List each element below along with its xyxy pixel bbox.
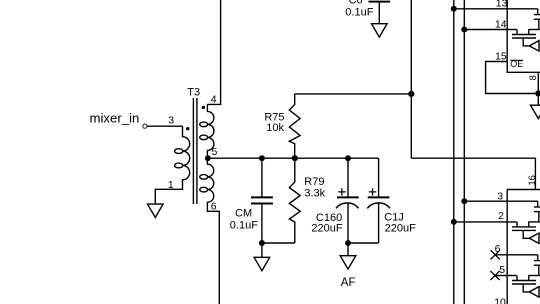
ground at pin 8 (clipped) [537, 94, 539, 106]
pin 3 wire [464, 200, 537, 202]
pin 5 wire with no-connect X [495, 275, 517, 277]
transformer T3 core [193, 98, 197, 204]
pin number 5 (IC) [499, 264, 505, 276]
IC U1 top body edges [507, 0, 540, 72]
label C160 [311, 212, 342, 235]
transformer T3 secondary upper winding [200, 104, 214, 158]
junction pin2 [451, 219, 457, 225]
analog switch (pins 3/2) [512, 201, 540, 243]
svg-text:5: 5 [212, 146, 218, 158]
resistor R79 [289, 158, 300, 243]
transformer T3 primary winding [155, 126, 189, 204]
svg-text:5: 5 [499, 264, 505, 276]
svg-text:AF: AF [341, 277, 356, 289]
junction pin8/pin15 net [535, 90, 540, 96]
ground below CM [261, 243, 263, 257]
vertical bus line 2 [463, 0, 465, 304]
junction C160 top [345, 155, 351, 161]
svg-text:6: 6 [211, 200, 217, 212]
wire bottom bus right [348, 242, 379, 244]
label C6 [345, 0, 373, 19]
junction pin13 [451, 6, 457, 12]
transformer T3 secondary lower winding [200, 158, 220, 304]
svg-text:4: 4 [211, 94, 217, 106]
capacitor C160 [347, 158, 349, 197]
pin 8 stub [537, 72, 539, 93]
wire R75 top [295, 93, 412, 95]
wire mixer_in to T3 pin 3 [147, 125, 182, 127]
vertical bus line 1 [453, 0, 455, 304]
wire mid bus (T3 pin 5 net) [207, 157, 378, 159]
label R75 [264, 112, 284, 134]
pin number 15 [495, 51, 507, 63]
pin number 6 (IC) [495, 243, 501, 255]
pin 14 wire [464, 29, 516, 31]
junction T3 pin 5 [205, 155, 211, 161]
svg-text:10: 10 [494, 297, 506, 304]
pin number 4 (T3) [211, 94, 217, 106]
svg-text:2: 2 [498, 210, 504, 222]
junction CM bottom [259, 240, 265, 246]
pin label OE (inside IC) [510, 59, 523, 69]
svg-text:16: 16 [527, 175, 538, 186]
pin number 10 (clipped) [494, 297, 506, 304]
polarity dot primary [186, 127, 189, 130]
ground below C6 [372, 24, 388, 37]
junction pin3 [461, 198, 467, 204]
svg-text:6: 6 [495, 243, 501, 255]
wire bottom bus left (CM/R79 gnd) [262, 242, 295, 244]
label R79 [304, 176, 325, 200]
pin number 14 [495, 18, 507, 30]
svg-text:1: 1 [168, 179, 174, 191]
plus sign C1J [369, 188, 376, 195]
node mixer_in label [90, 111, 140, 126]
pin circle mixer_in [143, 124, 147, 128]
ground at T3 pin 1 [148, 204, 164, 217]
pin number 16 (rotated) [527, 175, 538, 186]
junction R75/R79 [292, 155, 298, 161]
pin number 2 (IC) [498, 210, 504, 222]
svg-text:13: 13 [496, 0, 508, 9]
svg-text:T3: T3 [187, 87, 200, 99]
wire T3 pin 4 to top edge [207, 0, 220, 104]
svg-text:3.3k: 3.3k [304, 187, 325, 199]
analog switch (pins 6/5) [512, 255, 540, 297]
svg-text:3: 3 [168, 115, 174, 127]
svg-text:C6: C6 [349, 0, 363, 6]
label C1J [384, 212, 416, 235]
svg-text:14: 14 [495, 18, 507, 30]
pin 15 wire [486, 62, 539, 94]
ground AF below C160 [347, 243, 349, 256]
svg-text:220uF: 220uF [311, 223, 342, 235]
svg-text:R79: R79 [304, 176, 324, 188]
IC U2 bottom body edges [507, 190, 540, 304]
svg-text:15: 15 [495, 51, 507, 63]
resistor R75 [289, 94, 300, 158]
junction R75 net at x411 [408, 91, 414, 97]
pin number 13 [496, 0, 508, 9]
plus sign C160 [338, 188, 345, 195]
junction C160 bottom [345, 240, 351, 246]
label CM [230, 207, 258, 231]
pin 2 wire [454, 221, 517, 223]
pin number 3 (IC) [497, 191, 503, 203]
svg-text:CM: CM [235, 207, 252, 219]
wire to IC2 pin 16 [411, 158, 535, 189]
net label AF [341, 277, 356, 289]
junction CM top [259, 155, 265, 161]
transformer T3 label [187, 87, 200, 99]
svg-text:8: 8 [528, 75, 539, 80]
pin 13 wire [454, 8, 538, 10]
analog switch (pins 13/14) [512, 9, 540, 51]
pin number 8 (rotated) [528, 75, 539, 80]
svg-text:mixer_in: mixer_in [90, 111, 140, 126]
junction pin14 [461, 27, 467, 33]
capacitor CM [261, 158, 263, 197]
svg-text:0.1uF: 0.1uF [230, 219, 258, 231]
svg-text:220uF: 220uF [385, 222, 416, 234]
capacitor C1J [378, 158, 380, 197]
pin number 5 (T3) [212, 146, 218, 158]
svg-text:0.1uF: 0.1uF [345, 7, 373, 19]
svg-text:3: 3 [497, 191, 503, 203]
polarity dot secondary [202, 106, 205, 109]
wire vertical x411 from top edge [410, 0, 412, 158]
pin number 1 (T3) [168, 179, 174, 191]
pin number 6 (T3) [211, 200, 217, 212]
pin number 3 (T3) [168, 115, 174, 127]
capacitor C6 (clipped at top) [369, 1, 391, 3]
pin 6 wire with no-connect X [495, 254, 538, 256]
svg-text:10k: 10k [266, 122, 284, 134]
